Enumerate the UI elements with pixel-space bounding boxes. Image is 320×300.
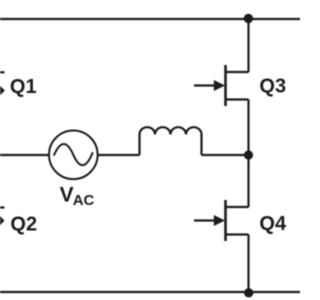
wire source-to-inductor <box>98 154 140 156</box>
transistor Q1 (partial, clipped at left edge) <box>0 72 5 95</box>
svg-text:Q4: Q4 <box>259 213 287 235</box>
wire right vertical upper <box>247 19 249 72</box>
AC source sine wave <box>54 144 93 165</box>
svg-text:V: V <box>60 183 74 206</box>
wire right vertical lower <box>247 235 249 293</box>
node junction dot middle <box>244 150 253 159</box>
wire middle left <box>0 154 50 156</box>
node junction dot bottom <box>244 288 253 297</box>
svg-text:Q3: Q3 <box>259 76 286 98</box>
transistor Q4 <box>194 200 249 241</box>
wire inductor-to-node <box>202 154 249 156</box>
wire top rail <box>0 18 300 20</box>
transistor Q2 (partial, clipped at left edge) <box>0 208 5 226</box>
wire right vertical middle <box>247 100 249 208</box>
transistor Q3 <box>194 65 249 106</box>
svg-text:Q2: Q2 <box>10 213 37 235</box>
AC source V_AC circle <box>49 131 98 180</box>
svg-text:AC: AC <box>73 192 95 209</box>
wire bottom rail <box>0 291 300 293</box>
node junction dot top <box>244 14 253 23</box>
svg-text:Q1: Q1 <box>10 76 37 98</box>
inductor L1 <box>140 127 202 155</box>
